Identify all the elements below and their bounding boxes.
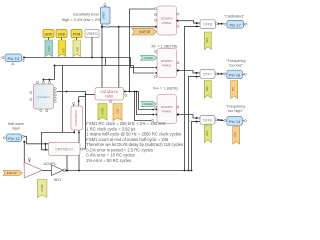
label 240 mV banner xyxy=(3,170,22,175)
svg-text:POR: POR xyxy=(76,47,79,52)
flip-flop DFF7 xyxy=(200,70,217,79)
ribbon under DFF6 xyxy=(204,125,211,143)
svg-text:Pin 16: Pin 16 xyxy=(229,73,241,78)
svg-text:Pin 19: Pin 19 xyxy=(8,56,20,61)
junction: VREF output node xyxy=(91,26,120,59)
svg-text:CNT: CNT xyxy=(115,108,119,114)
comparator ACMP1 xyxy=(24,158,56,178)
ribbon under VDD xyxy=(58,40,66,57)
ribbon under DFF8 xyxy=(204,32,211,50)
flip-flop DFF8 xyxy=(200,20,218,29)
wire DCMP outputs to DFF D inputs xyxy=(177,21,200,118)
svg-text:VDD: VDD xyxy=(63,48,66,53)
svg-text:too low”: too low” xyxy=(229,64,243,68)
svg-text:VREFO: VREFO xyxy=(87,32,99,36)
svg-text:CNT6/DLY6: CNT6/DLY6 xyxy=(74,110,78,126)
svg-text:PWM0: PWM0 xyxy=(162,109,172,113)
svg-text:0x9AD: 0x9AD xyxy=(144,102,153,106)
svg-text:FSM1: FSM1 xyxy=(100,107,104,114)
junction: CNT7 input taps xyxy=(23,141,46,151)
junction: clock bus taps xyxy=(66,170,192,172)
wire CNT6 cascade xyxy=(42,130,80,170)
counter CNT7/DLY7 xyxy=(49,142,83,155)
pin Pin 16 xyxy=(224,70,247,79)
inverter INV1 xyxy=(52,165,66,182)
svg-text:Half-wave: Half-wave xyxy=(8,122,24,126)
svg-text:Oscillator: Oscillator xyxy=(37,95,50,99)
pin VDD xyxy=(56,30,67,41)
vref source block xyxy=(101,3,111,27)
svg-text:FSM1: FSM1 xyxy=(105,94,114,98)
svg-text:“Frequency: “Frequency xyxy=(226,104,245,108)
junction: H2 node at oscillator column xyxy=(54,65,56,67)
svg-text:PIN: PIN xyxy=(233,132,237,136)
svg-text:DFF: DFF xyxy=(205,130,209,135)
ribbon under GND xyxy=(45,40,53,57)
ribbon under Pin 16 xyxy=(231,81,238,99)
svg-text:INV1: INV1 xyxy=(54,178,62,182)
ribbon FSM1 a xyxy=(98,104,107,121)
wire VREF to DCMP2 xyxy=(102,26,155,28)
svg-text:GND: GND xyxy=(48,46,51,52)
svg-text:2% error = 50 RC cycles: 2% error = 50 RC cycles xyxy=(86,158,131,163)
counter CNT6/DLY6 xyxy=(71,102,83,130)
wire Pin12 to CNT7 and ACMP1 xyxy=(24,136,49,167)
ribbon under ACMP1 xyxy=(37,180,47,198)
svg-text:POR: POR xyxy=(73,32,81,36)
ribbon under DFF7 xyxy=(204,81,211,99)
svg-text:“Calibrated”: “Calibrated” xyxy=(224,15,245,19)
svg-text:ACMP: ACMP xyxy=(40,184,44,192)
wire DFF outputs to pins xyxy=(217,24,244,121)
wire net from Pin 19 (H1) xyxy=(24,27,155,88)
pin VREFO xyxy=(85,30,99,41)
pin GND xyxy=(43,30,54,41)
pin POR xyxy=(71,30,82,41)
svg-text:PWM1: PWM1 xyxy=(162,63,172,67)
counter CNT4/DLY4/FSM1 xyxy=(95,88,127,103)
ribbon FSM1 b xyxy=(113,104,122,121)
svg-text:Pin 14: Pin 14 xyxy=(229,119,241,124)
oscillator xyxy=(30,81,57,111)
svg-text:fH- = 1.2B(17B): fH- = 1.2B(17B) xyxy=(152,44,178,48)
svg-text:Therefore we let DLY8 delay by: Therefore we let DLY8 delay by (subtract… xyxy=(86,142,183,147)
wire net H2 xyxy=(43,66,154,133)
pin Pin 12 xyxy=(3,134,24,142)
flip-flop DFF6 xyxy=(200,116,217,125)
svg-text:input: input xyxy=(12,127,20,131)
svg-text:PIN: PIN xyxy=(231,87,235,91)
banner 0xAD b xyxy=(141,102,156,107)
ribbon under POR xyxy=(73,40,81,57)
svg-text:GND: GND xyxy=(45,32,53,36)
svg-text:fH+ = 1.1B(7B): fH+ = 1.1B(7B) xyxy=(153,86,178,90)
junction: oscillator top pin taps xyxy=(43,79,87,102)
wire ACMP1 to INV1 xyxy=(29,160,51,171)
svg-text:CNT4/DLY4/: CNT4/DLY4/ xyxy=(100,90,118,94)
junction: Pin 19 output node xyxy=(23,57,25,59)
wire FSM1 output bus xyxy=(125,9,155,121)
svg-text:DFF: DFF xyxy=(205,37,209,42)
pin Pin 17 xyxy=(224,20,247,28)
svg-text:too high”: too high” xyxy=(228,109,244,113)
comparator DCMP2/PWM2 xyxy=(155,6,179,35)
svg-text:Pin 17: Pin 17 xyxy=(230,22,242,27)
svg-text:ACMP1: ACMP1 xyxy=(44,162,56,166)
junction: DFF-to-pin nodes xyxy=(217,23,222,121)
svg-text:PWM2: PWM2 xyxy=(162,21,172,25)
svg-text:DFF8: DFF8 xyxy=(203,23,212,27)
comparator DCMP0/PWM0 xyxy=(151,95,179,124)
banner 0x12B xyxy=(132,28,156,35)
wire clock bus from INV1 xyxy=(66,26,200,170)
svg-text:0x9AD: 0x9AD xyxy=(144,56,153,60)
FSM1 notes text xyxy=(86,121,183,163)
svg-text:DFF: DFF xyxy=(205,86,209,91)
svg-text:CNT7/DLY7: CNT7/DLY7 xyxy=(55,147,73,151)
svg-text:“Frequency: “Frequency xyxy=(226,59,245,63)
svg-text:High = 0.4% (low = 2%): High = 0.4% (low = 2%) xyxy=(62,18,103,22)
svg-text:DFF6: DFF6 xyxy=(203,118,212,122)
svg-text:0.4% error = 10 RC cycles: 0.4% error = 10 RC cycles xyxy=(86,153,134,158)
banner 0xAD a xyxy=(141,55,158,60)
pin Pin 14 xyxy=(224,117,247,126)
svg-text:VREF: VREF xyxy=(101,11,105,19)
ribbon under Pin 14 xyxy=(233,127,240,145)
comparator DCMP1/PWM1 xyxy=(155,49,179,78)
svg-text:240 mV: 240 mV xyxy=(7,171,17,175)
svg-text:Sensitivity level: Sensitivity level xyxy=(73,13,99,17)
svg-text:Pin 12: Pin 12 xyxy=(8,136,20,141)
junction: FSM1 output bus taps xyxy=(129,26,157,116)
svg-text:FSM1 RC clock = 250 kHz + 2% =: FSM1 RC clock = 250 kHz + 2% = 255 kHz xyxy=(86,121,165,126)
svg-text:1 mains half-cycle @ 50 Hz = 2: 1 mains half-cycle @ 50 Hz = 2550 RC clo… xyxy=(86,132,181,137)
pin Pin 19 xyxy=(2,54,24,65)
svg-text:DFF7: DFF7 xyxy=(203,73,212,77)
wire oscillator to counters xyxy=(57,92,95,150)
junction: CNT6 bottom pins xyxy=(73,132,80,134)
svg-text:0x1F1B: 0x1F1B xyxy=(139,30,150,34)
junction: DCMP output nodes xyxy=(176,20,198,123)
svg-text:VDD: VDD xyxy=(58,32,66,36)
